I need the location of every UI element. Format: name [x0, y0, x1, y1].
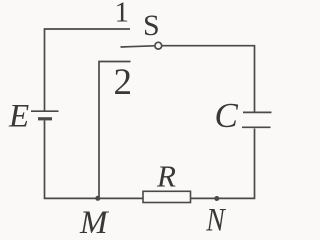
svg-text:C: C — [215, 96, 239, 135]
svg-text:E: E — [8, 99, 29, 135]
svg-text:M: M — [79, 205, 109, 238]
svg-text:1: 1 — [115, 0, 130, 29]
svg-text:2: 2 — [114, 62, 133, 103]
svg-text:R: R — [156, 159, 176, 194]
svg-text:N: N — [205, 201, 226, 238]
svg-text:S: S — [143, 9, 160, 42]
